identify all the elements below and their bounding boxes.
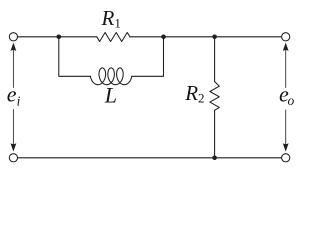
ei arrow line lower (12, 110, 14, 145)
resistor R1 (97, 33, 130, 42)
eo arrow line lower (285, 110, 287, 145)
wire R2 bottom stub (214, 110, 216, 158)
arrowhead ei up (11, 43, 17, 51)
inductor L (90, 68, 131, 85)
junction node A (57, 35, 62, 40)
arrowhead eo up (283, 43, 289, 51)
wire top-right segment (130, 36, 282, 38)
junction node C (R2 top) (212, 35, 217, 40)
terminal bottom-right (282, 154, 290, 162)
wire inductor branch left drop (59, 37, 91, 77)
eo arrow line upper (285, 50, 287, 88)
wire R2 top stub (214, 37, 216, 82)
terminal bottom-left (9, 154, 17, 162)
ei arrow line upper (12, 50, 14, 88)
arrowhead ei down (11, 143, 17, 151)
svg-text:L: L (104, 83, 117, 108)
arrowhead eo down (283, 143, 289, 151)
wire inductor branch right rise (132, 37, 164, 77)
terminal top-left (9, 33, 17, 41)
resistor R2 (210, 82, 219, 111)
wire top-left segment (18, 36, 97, 38)
junction node D (R2 bottom) (212, 156, 217, 161)
junction node B (161, 35, 166, 40)
wire bottom (18, 157, 282, 159)
terminal top-right (282, 33, 290, 41)
